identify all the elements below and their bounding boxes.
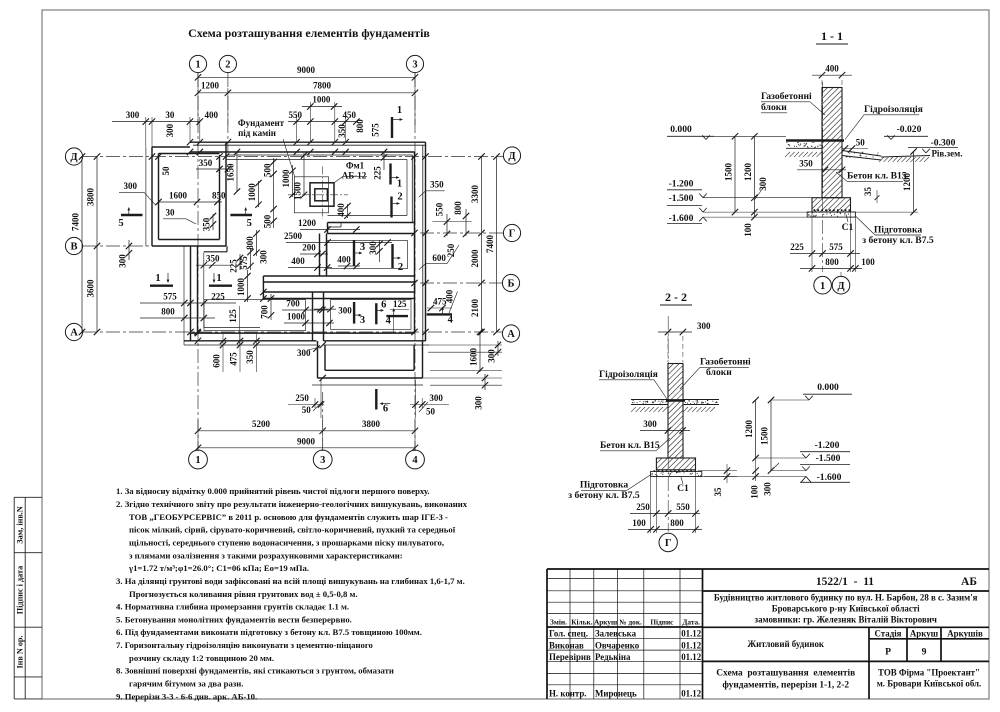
section 2-2 label C1 bbox=[677, 477, 689, 494]
axis circle G right bbox=[503, 224, 520, 241]
dim row small top bbox=[112, 102, 360, 147]
svg-text:Р: Р bbox=[885, 647, 891, 658]
svg-text:-0.020: -0.020 bbox=[897, 124, 922, 135]
svg-text:Миронець: Миронець bbox=[595, 689, 637, 699]
svg-text:400: 400 bbox=[205, 110, 219, 120]
svg-text:Змін.: Змін. bbox=[550, 618, 567, 627]
svg-text:6: 6 bbox=[381, 300, 386, 311]
svg-text:400: 400 bbox=[337, 255, 351, 265]
axis circle A right bbox=[502, 325, 519, 342]
axis line V horizontal bbox=[83, 245, 195, 247]
svg-text:-1.600: -1.600 bbox=[817, 472, 842, 483]
svg-text:гарячим бітумом за два рази.: гарячим бітумом за два рази. bbox=[129, 679, 243, 689]
svg-text:Гол. спец.: Гол. спец. bbox=[549, 629, 588, 639]
svg-text:50: 50 bbox=[161, 166, 171, 176]
section mark 4 right bbox=[427, 307, 454, 326]
svg-text:1: 1 bbox=[216, 273, 221, 284]
section 2-2 footing hatched bbox=[656, 458, 695, 470]
axis circle 1 top bbox=[189, 55, 206, 72]
svg-text:2: 2 bbox=[225, 60, 230, 71]
svg-text:пісок мілкий, сірий, сірувато-: пісок мілкий, сірий, сірувато-коричневий… bbox=[129, 525, 456, 535]
svg-text:фундаментів, перерізи 1-1, 2-2: фундаментів, перерізи 1-1, 2-2 bbox=[722, 680, 849, 691]
svg-text:250: 250 bbox=[446, 243, 456, 257]
svg-text:2: 2 bbox=[398, 262, 403, 273]
middle room left wall bbox=[320, 234, 327, 277]
section 2-2 title bbox=[660, 290, 692, 305]
section 2-2 waterproofing line bbox=[666, 399, 685, 402]
svg-text:замовники: гр. Железняк Віталі: замовники: гр. Железняк Віталій Вікторов… bbox=[755, 615, 937, 625]
title block staff rows bbox=[549, 629, 702, 699]
svg-text:В: В bbox=[70, 242, 77, 253]
svg-text:9. Перерізи 3-3 - 6-6 див. арк: 9. Перерізи 3-3 - 6-6 див. арк. АБ-10. bbox=[116, 691, 257, 701]
svg-text:400: 400 bbox=[336, 203, 346, 217]
top-left room footing line left bbox=[145, 147, 147, 246]
svg-text:1522/1 - 11: 1522/1 - 11 bbox=[816, 576, 874, 588]
title block firm bbox=[877, 668, 982, 689]
svg-text:1200: 1200 bbox=[298, 218, 317, 228]
svg-text:з плямами озалізнення з такими: з плямами озалізнення з такими розрахунк… bbox=[129, 550, 403, 560]
axis circle D left bbox=[65, 148, 82, 165]
svg-text:АБ-12: АБ-12 bbox=[342, 171, 367, 181]
svg-text:Г: Г bbox=[509, 229, 516, 240]
svg-text:800: 800 bbox=[453, 201, 463, 215]
svg-text:блоки: блоки bbox=[761, 102, 787, 113]
title block thin rows left table bbox=[547, 569, 703, 699]
bottom-right room footing rect bbox=[331, 300, 412, 330]
dim 7400 right bbox=[485, 153, 500, 335]
section 1-1 floor slab bbox=[786, 142, 822, 149]
svg-text:1200: 1200 bbox=[744, 420, 754, 439]
dim 125 rotated bottomleft bbox=[228, 306, 240, 345]
section mark 1 right pair bbox=[209, 273, 232, 286]
svg-text:1. За відносну відмітку 0.000: 1. За відносну відмітку 0.000 прийнятий … bbox=[116, 486, 430, 496]
dim 475 400 right bbox=[427, 289, 458, 313]
section mark 1 top bbox=[392, 105, 403, 138]
svg-text:30: 30 bbox=[165, 110, 175, 120]
wall right outer pair bbox=[423, 142, 426, 341]
svg-text:01.12: 01.12 bbox=[681, 640, 702, 650]
svg-text:Підготовка: Підготовка bbox=[874, 225, 922, 236]
dim 225 rotated right room bbox=[373, 149, 388, 180]
svg-text:Будівництво житлового будинку: Будівництво житлового будинку по вул. Н.… bbox=[714, 593, 978, 603]
svg-text:-1.200: -1.200 bbox=[669, 179, 694, 190]
svg-text:800: 800 bbox=[825, 257, 839, 267]
svg-text:Схема розташування елементів: Схема розташування елементів bbox=[716, 668, 855, 679]
wall top footing line bbox=[226, 159, 407, 161]
svg-text:6. Під фундаментами виконати: 6. Під фундаментами виконати підготовку … bbox=[116, 627, 422, 637]
svg-text:35: 35 bbox=[863, 187, 873, 197]
dim 30 room bbox=[163, 208, 196, 225]
svg-text:250: 250 bbox=[295, 393, 309, 403]
dim 800 rotated stair bbox=[245, 230, 260, 256]
dim 250 50 porch left bbox=[288, 380, 324, 418]
svg-text:1: 1 bbox=[195, 455, 200, 466]
wall bottom lines bbox=[184, 333, 429, 345]
section 1-1 rebar dots bbox=[814, 209, 851, 211]
wall top outer pair bbox=[190, 142, 426, 145]
title block sheet title bbox=[716, 668, 855, 691]
svg-text:300: 300 bbox=[165, 123, 175, 137]
axis line A horizontal bbox=[83, 331, 503, 333]
svg-text:1000: 1000 bbox=[236, 278, 246, 297]
section 2-2 label pidgotovka bbox=[568, 475, 651, 502]
svg-text:ТОВ „ГЕОБУРСЕРВІС” в 2011 р. о: ТОВ „ГЕОБУРСЕРВІС” в 2011 р. основою для… bbox=[129, 512, 448, 522]
svg-text:Перевірив: Перевірив bbox=[549, 652, 591, 662]
bottom-left room footing rect bbox=[204, 300, 306, 331]
svg-text:700: 700 bbox=[286, 299, 300, 309]
dim 200 bbox=[300, 243, 328, 258]
dim 1600 300 right lower bbox=[469, 329, 502, 374]
section mark 5 left bbox=[118, 207, 142, 229]
svg-text:400: 400 bbox=[291, 256, 305, 266]
dim 300 left mid bbox=[118, 240, 133, 268]
svg-text:7400: 7400 bbox=[71, 213, 81, 232]
svg-text:Схема розташування елементів ф: Схема розташування елементів фундаментів bbox=[188, 26, 430, 40]
section 1-1 prep layer bbox=[807, 212, 855, 217]
svg-text:550: 550 bbox=[288, 110, 302, 120]
svg-text:0.000: 0.000 bbox=[670, 124, 692, 135]
dim 350 rotated below room bbox=[202, 213, 217, 231]
svg-text:400: 400 bbox=[825, 64, 839, 74]
axis circle 1 bottom bbox=[189, 450, 208, 469]
svg-text:0.000: 0.000 bbox=[817, 382, 839, 393]
svg-text:Підпис: Підпис bbox=[650, 618, 674, 627]
section 2-2 level -1.600 bbox=[702, 472, 850, 483]
dim 1200 notch bbox=[298, 218, 360, 233]
section 1-1 bottom dims bbox=[790, 212, 875, 272]
dim 9000 top bbox=[195, 65, 418, 125]
svg-text:γ1=1.72 т/м³;φ1=26.0°; С1=06 к: γ1=1.72 т/м³;φ1=26.0°; С1=06 кПа; Ео=19 … bbox=[128, 563, 309, 573]
section 1-1 level -1.500 bbox=[667, 193, 812, 212]
svg-text:500: 500 bbox=[262, 163, 272, 177]
wall right inner pair bbox=[412, 152, 414, 333]
svg-text:-1.500: -1.500 bbox=[669, 193, 694, 204]
svg-text:1000: 1000 bbox=[312, 95, 331, 105]
svg-text:Редькіна: Редькіна bbox=[595, 652, 631, 662]
section 1-1 dim 35 bbox=[863, 187, 879, 204]
svg-text:300: 300 bbox=[758, 177, 768, 191]
section 1-1 label pidgotovka bbox=[856, 217, 934, 247]
svg-text:Підпис і дата: Підпис і дата bbox=[15, 566, 24, 614]
svg-text:300: 300 bbox=[126, 110, 140, 120]
rotated dim labels top bbox=[165, 119, 381, 138]
dim 550 800 right rotated bbox=[432, 201, 471, 237]
svg-text:50: 50 bbox=[426, 407, 436, 417]
dim 1000 left of fireplace rotated bbox=[247, 180, 262, 208]
section 2-2 prep layer bbox=[651, 471, 702, 476]
svg-text:1600: 1600 bbox=[169, 191, 188, 201]
section mark 1 left pair bbox=[150, 273, 173, 286]
section 1-1 label hydroizol bbox=[845, 104, 923, 140]
dim 575 225 left bottom bbox=[140, 292, 236, 307]
svg-text:01.12: 01.12 bbox=[681, 689, 702, 699]
section 2-2 axis circle G bbox=[659, 533, 677, 551]
svg-text:600: 600 bbox=[212, 354, 222, 368]
dim 1500 rotated center bbox=[293, 152, 308, 200]
svg-text:ТОВ Фірма "Проектант": ТОВ Фірма "Проектант" bbox=[878, 668, 980, 678]
svg-text:100: 100 bbox=[632, 518, 646, 528]
axis line 3-4 vertical bbox=[414, 73, 416, 451]
svg-text:50: 50 bbox=[302, 405, 312, 415]
axis circle 4 bottom bbox=[406, 450, 425, 469]
svg-text:Аркуш: Аркуш bbox=[910, 628, 939, 638]
svg-text:35: 35 bbox=[713, 487, 723, 497]
svg-text:800: 800 bbox=[670, 518, 684, 528]
svg-text:Газобетонні: Газобетонні bbox=[700, 357, 751, 368]
svg-text:575: 575 bbox=[163, 292, 177, 302]
title block stage sheet headers bbox=[875, 628, 983, 657]
svg-text:Гідроізоляція: Гідроізоляція bbox=[599, 369, 658, 380]
svg-text:100: 100 bbox=[750, 485, 760, 499]
svg-text:4: 4 bbox=[386, 316, 392, 327]
dim 9000 bottom bbox=[195, 437, 418, 452]
section 1-1 dim 50 bbox=[842, 138, 868, 152]
svg-text:30: 30 bbox=[166, 208, 176, 218]
wall top inner pair bbox=[190, 152, 415, 155]
section 1-1 level 0.000 bbox=[667, 124, 786, 140]
top-left room SE step bbox=[204, 246, 227, 252]
section 1-1 level -1.200 bbox=[667, 179, 812, 198]
axis line D horizontal bbox=[83, 156, 503, 158]
svg-text:600: 600 bbox=[432, 253, 446, 263]
section 2-2 axis centerline bbox=[667, 316, 669, 532]
dim 1000 rotated center bbox=[281, 165, 296, 198]
dim 1650 rotated bbox=[226, 149, 241, 195]
section 1-1 level -1.600 bbox=[667, 213, 807, 224]
svg-text:1 - 1: 1 - 1 bbox=[821, 29, 843, 43]
middle room footing rect bbox=[327, 241, 408, 269]
axis circle V left bbox=[65, 237, 82, 254]
svg-text:125: 125 bbox=[228, 309, 238, 323]
section 1-1 waterproofing line bbox=[786, 139, 844, 141]
svg-text:550: 550 bbox=[435, 202, 445, 216]
svg-text:Гідроізоляція: Гідроізоляція bbox=[864, 104, 923, 115]
svg-text:3800: 3800 bbox=[86, 188, 96, 207]
svg-text:225: 225 bbox=[790, 242, 804, 252]
svg-text:С1: С1 bbox=[677, 483, 689, 494]
axis line 1 vertical bbox=[197, 73, 199, 451]
svg-text:1600: 1600 bbox=[469, 348, 479, 367]
svg-text:2 - 2: 2 - 2 bbox=[665, 290, 687, 304]
section mark 2 upper right bbox=[392, 192, 403, 218]
svg-text:-1.200: -1.200 bbox=[815, 440, 840, 451]
dim 1000 top bbox=[302, 95, 342, 110]
svg-text:3600: 3600 bbox=[86, 279, 96, 298]
svg-text:300: 300 bbox=[338, 306, 352, 316]
svg-text:350: 350 bbox=[199, 158, 213, 168]
section 2-2 dims 1200 1500 middle bbox=[744, 397, 774, 474]
svg-text:3: 3 bbox=[320, 455, 325, 466]
svg-text:Підготовка: Підготовка bbox=[580, 480, 628, 491]
svg-text:7400: 7400 bbox=[485, 235, 495, 254]
section 1-1 axis centerline bbox=[822, 82, 824, 272]
svg-text:450: 450 bbox=[342, 110, 356, 120]
notes text block bbox=[116, 486, 468, 701]
svg-text:300: 300 bbox=[429, 393, 443, 403]
section 2-2 label hydroizol bbox=[599, 369, 667, 399]
section mark 6 bottom room bbox=[376, 299, 409, 325]
svg-text:200: 200 bbox=[302, 243, 316, 253]
svg-text:01.12: 01.12 bbox=[681, 629, 702, 639]
section 1-1 dim 400 top bbox=[812, 64, 852, 89]
fireplace axis cross bbox=[288, 167, 348, 220]
dim 7400 left bbox=[71, 153, 86, 335]
axis circle 3 top bbox=[406, 55, 423, 72]
fireplace foundation inner rect bbox=[315, 189, 328, 201]
bottom rooms divider wall bbox=[313, 292, 324, 341]
svg-text:Д: Д bbox=[508, 151, 516, 162]
svg-text:400: 400 bbox=[445, 289, 455, 303]
svg-text:350: 350 bbox=[245, 350, 255, 364]
svg-text:2500: 2500 bbox=[284, 231, 303, 241]
section 1-1 axis circles 1 D bbox=[814, 272, 850, 294]
axis line 3 bottom vertical bbox=[322, 392, 324, 451]
svg-text:350: 350 bbox=[202, 217, 212, 231]
svg-text:50: 50 bbox=[856, 138, 866, 148]
dim 3800 3600 left bbox=[86, 153, 101, 335]
svg-text:1: 1 bbox=[820, 281, 825, 292]
axis line 2 vertical bbox=[227, 73, 229, 152]
dim 250 right rotated bbox=[446, 243, 459, 263]
svg-text:9000: 9000 bbox=[297, 65, 316, 75]
svg-text:7800: 7800 bbox=[313, 81, 332, 91]
wall axis crossing ticks bbox=[149, 139, 429, 381]
dim 400 pair lower bbox=[288, 255, 360, 271]
svg-text:100: 100 bbox=[743, 223, 753, 237]
title block header row texts bbox=[550, 618, 700, 627]
svg-text:А: А bbox=[70, 328, 78, 339]
svg-text:575: 575 bbox=[829, 242, 843, 252]
svg-text:350: 350 bbox=[206, 254, 220, 264]
svg-text:щільності, середнього ступеню: щільності, середнього ступеню водонасиче… bbox=[129, 538, 444, 548]
svg-text:А: А bbox=[507, 329, 515, 340]
svg-text:м. Бровари Київської обл.: м. Бровари Київської обл. bbox=[877, 679, 982, 689]
svg-text:Дата.: Дата. bbox=[682, 618, 700, 627]
axis circle A left bbox=[65, 323, 82, 340]
top-left room inner walls bbox=[159, 154, 220, 240]
svg-text:Газобетонні: Газобетонні bbox=[761, 91, 812, 102]
section 2-2 label beton B15 bbox=[600, 438, 670, 451]
svg-text:Зам, інв.N: Зам, інв.N bbox=[15, 506, 24, 544]
section 2-2 level -1.200 bbox=[756, 440, 850, 458]
svg-text:700: 700 bbox=[260, 305, 270, 319]
section 1-1 label C1 bbox=[842, 215, 854, 234]
axis circle D right bbox=[503, 147, 520, 164]
dim 800 left bottom bbox=[140, 307, 215, 322]
section 1-1 label beton B15 bbox=[836, 171, 907, 182]
svg-text:Інв N ор.: Інв N ор. bbox=[15, 635, 24, 668]
section 2-2 rebar dots bbox=[654, 470, 697, 472]
svg-text:5: 5 bbox=[118, 218, 123, 229]
section 2-2 ground hatch rows bbox=[631, 407, 715, 412]
svg-text:575: 575 bbox=[371, 123, 381, 137]
section 1-1 footing hatched bbox=[812, 198, 851, 212]
section mark 1 upper right bbox=[391, 164, 403, 190]
axis line G horizontal bbox=[420, 232, 503, 234]
svg-text:1: 1 bbox=[397, 105, 402, 116]
section 2-2 wall hatched bbox=[668, 364, 683, 459]
svg-text:2. Згідно технічного звіту про: 2. Згідно технічного звіту про результат… bbox=[116, 499, 468, 509]
axis circle 2 top bbox=[219, 55, 236, 72]
section 1-1 apron right bbox=[842, 151, 930, 162]
svg-text:3: 3 bbox=[412, 60, 417, 71]
section mark 4 bottom room bbox=[386, 308, 408, 332]
dim 225 575 rotated stair bbox=[229, 248, 254, 273]
svg-text:800: 800 bbox=[245, 236, 255, 250]
wall left lower footing inner line bbox=[204, 327, 260, 329]
svg-text:3300: 3300 bbox=[470, 185, 480, 204]
svg-text:550: 550 bbox=[676, 502, 690, 512]
svg-text:1000: 1000 bbox=[281, 169, 291, 188]
svg-text:300: 300 bbox=[258, 250, 268, 264]
svg-text:С1: С1 bbox=[842, 222, 854, 233]
svg-text:1200: 1200 bbox=[902, 173, 912, 192]
section 2-2 dim 300 top bbox=[658, 321, 711, 362]
dim 300 bottom divider bbox=[314, 306, 352, 316]
svg-text:850: 850 bbox=[212, 191, 226, 201]
svg-text:8. Зовнішні поверхні фундамент: 8. Зовнішні поверхні фундаментів, які ст… bbox=[116, 666, 394, 676]
svg-text:300: 300 bbox=[118, 254, 128, 268]
svg-text:3: 3 bbox=[360, 242, 365, 253]
svg-text:1500: 1500 bbox=[293, 182, 303, 201]
section 2-2 level 0.000 bbox=[771, 382, 852, 400]
svg-text:4: 4 bbox=[412, 455, 418, 466]
svg-text:500: 500 bbox=[262, 214, 272, 228]
section mark 2 middle bbox=[393, 244, 404, 273]
svg-text:6: 6 bbox=[383, 404, 388, 415]
svg-text:Кільк.: Кільк. bbox=[571, 618, 592, 627]
svg-text:Д: Д bbox=[70, 152, 78, 163]
svg-text:475: 475 bbox=[228, 352, 238, 366]
svg-text:Залевська: Залевська bbox=[595, 629, 637, 639]
svg-text:3: 3 bbox=[360, 315, 365, 326]
svg-text:2: 2 bbox=[397, 192, 402, 203]
svg-text:Б: Б bbox=[508, 279, 515, 290]
section 1-1 wall hatched bbox=[822, 88, 842, 198]
svg-text:300: 300 bbox=[697, 321, 711, 331]
svg-text:1000: 1000 bbox=[247, 183, 257, 202]
svg-text:800: 800 bbox=[355, 119, 365, 133]
svg-text:225: 225 bbox=[211, 292, 225, 302]
porch inner walls bbox=[325, 345, 414, 370]
section 1-1 title bbox=[816, 29, 848, 44]
svg-text:під камін: під камін bbox=[238, 128, 276, 138]
axis circle B right bbox=[502, 274, 519, 291]
svg-text:з бетону кл. В7.5: з бетону кл. В7.5 bbox=[862, 235, 934, 246]
svg-text:АБ: АБ bbox=[961, 576, 977, 588]
fireplace foundation middle rect bbox=[310, 183, 334, 206]
svg-text:800: 800 bbox=[161, 307, 175, 317]
svg-text:-0.300: -0.300 bbox=[931, 138, 956, 149]
svg-text:Д: Д bbox=[837, 281, 845, 292]
svg-text:5. Бетонування монолітних фунд: 5. Бетонування монолітних фундаментів ве… bbox=[116, 614, 352, 624]
label Fm1 AB-12 bbox=[335, 161, 368, 183]
svg-text:блоки: блоки bbox=[706, 367, 732, 378]
label 300 porch leader bbox=[297, 345, 320, 358]
left attribute column grid bbox=[14, 497, 42, 699]
dim 300 50 porch right bbox=[410, 380, 449, 418]
svg-text:Прогнозується коливання рівня: Прогнозується коливання рівня грунтових … bbox=[129, 589, 358, 599]
dim 700 1000 bottom rooms bbox=[282, 299, 334, 327]
label fundament pid kamin bbox=[238, 118, 295, 177]
svg-text:300: 300 bbox=[487, 349, 497, 363]
fireplace foundation outer rect bbox=[294, 177, 328, 213]
dim 500 upper rotated bbox=[262, 158, 277, 228]
label 300 left upper with leader bbox=[119, 181, 156, 205]
svg-text:Н. контр.: Н. контр. bbox=[549, 689, 587, 699]
svg-text:Бетон кл. В15: Бетон кл. В15 bbox=[600, 440, 660, 451]
svg-text:1000: 1000 bbox=[287, 312, 306, 322]
